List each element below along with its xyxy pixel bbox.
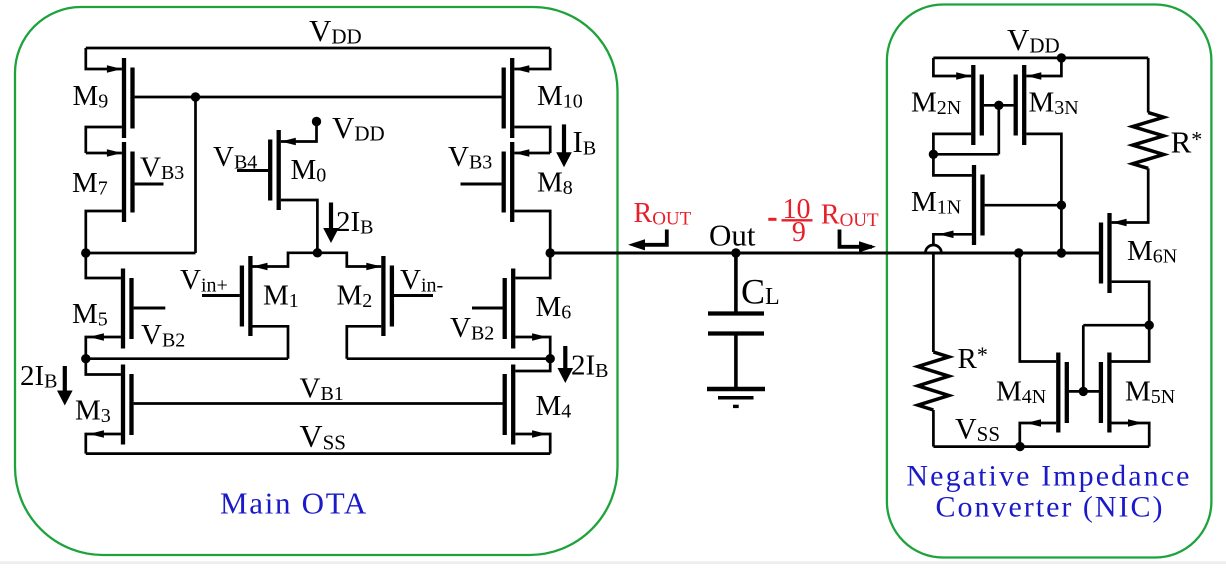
VSS rail label [300, 418, 346, 455]
svg-text:M2: M2 [337, 280, 373, 313]
transistor M7 channel [122, 142, 126, 222]
M6N label [1127, 235, 1177, 268]
Vin- label [400, 264, 443, 297]
node gates M2N-M3N [994, 101, 1003, 110]
M8 gate stub VB3 [461, 183, 502, 186]
VDD rail (NIC) [933, 57, 1148, 60]
M10 source lead from VDD [514, 48, 550, 73]
M4 top lead [515, 359, 550, 371]
M5N source lead [1112, 419, 1150, 446]
M1N source lead [933, 231, 972, 246]
M1N drain lead [933, 154, 972, 175]
transistor M5N gate bar [1099, 362, 1103, 423]
VDD rail (OTA) [86, 47, 550, 50]
svg-text:9: 9 [792, 217, 806, 248]
M5N drain lead [1112, 325, 1150, 361]
M5N label [1125, 376, 1175, 409]
M6 gate stub VB2 [472, 307, 503, 310]
wire gate node up [1082, 325, 1085, 391]
wire M3N drain to output [1060, 205, 1063, 253]
M2 source lead [317, 253, 381, 270]
M2 drain lead [347, 326, 382, 358]
svg-text:M1: M1 [263, 280, 299, 313]
svg-text:Converter (NIC): Converter (NIC) [935, 491, 1164, 524]
M5 source lead [86, 333, 121, 359]
VSS rail (NIC) [933, 445, 1149, 448]
svg-text:VB4: VB4 [213, 141, 257, 174]
M7 label [72, 167, 108, 200]
node VSS NIC [1015, 442, 1024, 451]
node gates M4N-M5N [1079, 387, 1088, 396]
M8 drain lead [514, 211, 550, 253]
transistor M0 channel [277, 130, 281, 210]
IB current arrow at M8 [556, 124, 572, 167]
svg-text:IB: IB [573, 124, 597, 160]
M0 source lead [281, 122, 317, 146]
NIC caption line 1 [906, 460, 1191, 493]
VDD terminal dot at M0 [312, 117, 321, 126]
Out label [709, 218, 756, 253]
ROUT arrow right [840, 230, 877, 253]
VB1 label [300, 373, 344, 406]
wire R* to M6N source [1112, 168, 1149, 226]
wire mirror node down [194, 97, 197, 253]
transistor M10 channel [510, 58, 514, 138]
svg-text:VDD: VDD [332, 110, 385, 146]
VSS rail (OTA) [86, 452, 550, 455]
ROUT label right [821, 200, 879, 232]
M0 label [291, 154, 327, 187]
M2N gate wire to M3N gate [984, 104, 1014, 107]
svg-text:VB1: VB1 [300, 373, 344, 406]
ground bar 2 [718, 396, 754, 400]
node M7 drain junction [81, 248, 90, 257]
transistor M5 gate bar [129, 278, 133, 339]
2IB current arrow left [57, 366, 73, 406]
M9 source lead from VDD [86, 48, 122, 73]
wire diode connection M2N [933, 153, 998, 156]
M10 label [537, 80, 583, 113]
M3 source lead [86, 430, 121, 453]
Vin+ label [180, 264, 228, 297]
M6 source lead [515, 333, 550, 359]
wire M9 gate to M10 gate [135, 96, 502, 99]
transistor M7 gate bar [130, 152, 134, 213]
VSS label NIC [955, 413, 1000, 447]
M1 drain lead [253, 326, 289, 358]
2IB label left [20, 360, 58, 393]
resistor R* upper [1133, 113, 1164, 169]
M3N label [1029, 87, 1079, 120]
svg-text:R*: R* [958, 342, 988, 375]
svg-text:M0: M0 [291, 154, 327, 187]
M8 label [537, 167, 573, 200]
M7 drain lead [86, 211, 122, 253]
transistor M5 channel [121, 269, 125, 349]
svg-text:VB3: VB3 [448, 141, 492, 174]
svg-text:VDD: VDD [1007, 22, 1060, 58]
svg-text:CL: CL [741, 272, 780, 312]
M6N drain lead [1112, 282, 1150, 326]
ROUT arrow left [628, 230, 667, 251]
M6 top lead [515, 253, 550, 278]
transistor M2N gate bar [980, 75, 984, 136]
M6 label [536, 291, 572, 324]
transistor M3 channel [121, 365, 125, 445]
svg-text:M1N: M1N [911, 186, 961, 219]
svg-text:2IB: 2IB [20, 360, 58, 393]
2IB current arrow right [558, 346, 574, 383]
svg-text:M4N: M4N [996, 376, 1046, 409]
CL wire from output [734, 253, 738, 312]
wire output down to M4N drain [1019, 253, 1056, 362]
transistor M2 gate bar [390, 266, 394, 327]
svg-text:2IB: 2IB [336, 206, 374, 239]
M3 top lead [86, 359, 121, 375]
transistor M2N channel [971, 65, 975, 145]
minus ten ninths label [768, 194, 810, 248]
node on mirror line [191, 92, 200, 101]
2IB label right [571, 350, 609, 383]
capacitor CL bottom plate [708, 331, 764, 335]
wire M1N source down to R* [932, 253, 935, 352]
svg-text:ROUT: ROUT [821, 200, 879, 232]
Main OTA boundary box [15, 7, 618, 555]
transistor M3N channel [1022, 65, 1026, 145]
wire gates to M5N drain node [1083, 324, 1149, 327]
wire R* to VSS [932, 410, 935, 447]
M4N gate lead [1069, 390, 1100, 393]
transistor M9 channel [122, 58, 126, 138]
transistor M1N gate bar [980, 175, 984, 236]
M4N label [996, 376, 1046, 409]
M2 gate stub [394, 294, 433, 297]
svg-text:Vin-: Vin- [400, 264, 443, 297]
M1 label [263, 280, 299, 313]
M4N source lead [1020, 419, 1056, 446]
wire gate node down [997, 105, 1000, 154]
node OTA output [546, 248, 555, 257]
transistor M6 channel [511, 269, 515, 349]
VDD rail label [309, 13, 362, 49]
2IB label at M0 [336, 206, 374, 239]
M8 source lead [514, 149, 550, 157]
svg-text:VSS: VSS [300, 418, 346, 455]
M1 gate stub [202, 294, 240, 297]
M1N gate lead [985, 204, 1062, 207]
transistor M4N channel [1056, 353, 1060, 433]
M7 source lead [86, 149, 122, 157]
svg-text:VB3: VB3 [140, 152, 184, 185]
fraction bar [782, 219, 813, 221]
node Out [731, 248, 740, 257]
M2N label [911, 87, 961, 120]
VB1 gate line M3-M4 [134, 402, 503, 405]
svg-text:VSS: VSS [955, 413, 1000, 447]
2IB current arrow at M0 [323, 203, 339, 244]
M9 label [73, 80, 109, 113]
node tail junction [313, 248, 322, 257]
CL label [741, 272, 780, 312]
M3N drain lead [1026, 134, 1061, 205]
VDD label NIC [1007, 22, 1060, 58]
M9 drain lead [86, 127, 122, 153]
page bottom edge strip [0, 561, 1226, 564]
svg-text:M2N: M2N [911, 87, 961, 120]
svg-text:M5: M5 [72, 298, 108, 331]
M4 label [536, 390, 572, 423]
svg-text:Main OTA: Main OTA [220, 486, 368, 521]
M2N source lead [933, 58, 971, 80]
svg-text:Negative Impedance: Negative Impedance [906, 460, 1191, 493]
transistor M8 channel [510, 142, 514, 222]
wire left fold rail [86, 357, 288, 360]
wire M7node to M5 [86, 253, 121, 278]
svg-text:Out: Out [709, 218, 756, 253]
transistor M4N gate bar [1065, 362, 1069, 423]
transistor M1N channel [972, 165, 976, 245]
ground bar 1 [707, 387, 765, 392]
capacitor CL top plate [708, 311, 764, 315]
wire right fold rail [347, 357, 550, 360]
transistor M8 gate bar [502, 152, 506, 213]
node M5N drain net [1145, 321, 1154, 330]
VB4 label [213, 141, 257, 174]
M4 source lead [515, 430, 550, 453]
M0 gate stub VB4 [237, 169, 268, 172]
M5 label [72, 298, 108, 331]
VB2 label right [450, 312, 494, 345]
svg-text:M6: M6 [536, 291, 572, 324]
transistor M0 gate bar [268, 140, 272, 201]
transistor M6N gate bar [1099, 223, 1103, 284]
R* label lower [958, 342, 988, 375]
VDD label at M0 [332, 110, 385, 146]
transistor M3 gate bar [129, 374, 133, 435]
svg-text:2IB: 2IB [571, 350, 609, 383]
transistor M9 gate bar [130, 68, 134, 129]
resistor R* lower [918, 352, 949, 410]
svg-text:M8: M8 [537, 167, 573, 200]
M10 drain lead [514, 127, 550, 153]
NIC boundary box [887, 5, 1212, 558]
node VDD NIC [1057, 53, 1066, 62]
CL wire to ground [734, 336, 738, 388]
M1 source lead [253, 253, 318, 270]
wire mirror node to M7 drain node [86, 252, 196, 255]
svg-text:R*: R* [1171, 125, 1203, 160]
transistor M1 channel [248, 256, 252, 336]
VB3 label right [448, 141, 492, 174]
node M1N gate [1057, 201, 1066, 210]
M2 label [337, 280, 373, 313]
output wire to NIC [550, 252, 1099, 255]
wire hop over output line [925, 245, 941, 253]
svg-text:M9: M9 [73, 80, 109, 113]
svg-text:M4: M4 [536, 390, 572, 423]
svg-text:M10: M10 [537, 80, 583, 113]
svg-text:M7: M7 [72, 167, 108, 200]
svg-text:M3N: M3N [1029, 87, 1079, 120]
M7 gate stub VB3 [135, 183, 164, 186]
svg-text:ROUT: ROUT [634, 198, 692, 230]
transistor M4 gate bar [503, 374, 507, 435]
svg-text:M3: M3 [75, 395, 111, 428]
NIC caption line 2 [935, 491, 1164, 524]
ground bar 3 [733, 405, 739, 408]
transistor M4 channel [511, 365, 515, 445]
transistor M6N channel [1107, 213, 1111, 293]
transistor M3N gate bar [1014, 75, 1018, 136]
IB label [573, 124, 597, 160]
node left fold [81, 354, 90, 363]
VB2 label left [141, 319, 185, 352]
svg-text:VB2: VB2 [141, 319, 185, 352]
ROUT label left [634, 198, 692, 230]
svg-text:VB2: VB2 [450, 312, 494, 345]
transistor M6 gate bar [503, 278, 507, 339]
transistor M1 gate bar [240, 266, 244, 327]
node right fold [546, 354, 555, 363]
transistor M10 gate bar [502, 68, 506, 129]
Main OTA caption [220, 486, 368, 521]
M5 gate stub VB2 [134, 307, 166, 310]
svg-text:Vin+: Vin+ [180, 264, 228, 297]
svg-text:M6N: M6N [1127, 235, 1177, 268]
transistor M5N channel [1107, 353, 1111, 433]
M3 label [75, 395, 111, 428]
svg-text:M5N: M5N [1125, 376, 1175, 409]
VB3 label left [140, 152, 184, 185]
node output-NIC right [1057, 248, 1066, 257]
M0 drain lead [281, 200, 318, 253]
wire VDD to R* upper [1147, 58, 1150, 113]
M2N drain lead [933, 134, 971, 154]
R* label upper [1171, 125, 1203, 160]
M3N source lead [1026, 58, 1061, 80]
node M2N drain [929, 150, 938, 159]
M1N label [911, 186, 961, 219]
svg-text:VDD: VDD [309, 13, 362, 49]
transistor M2 channel [381, 256, 385, 336]
node output to M4N [1014, 248, 1023, 257]
